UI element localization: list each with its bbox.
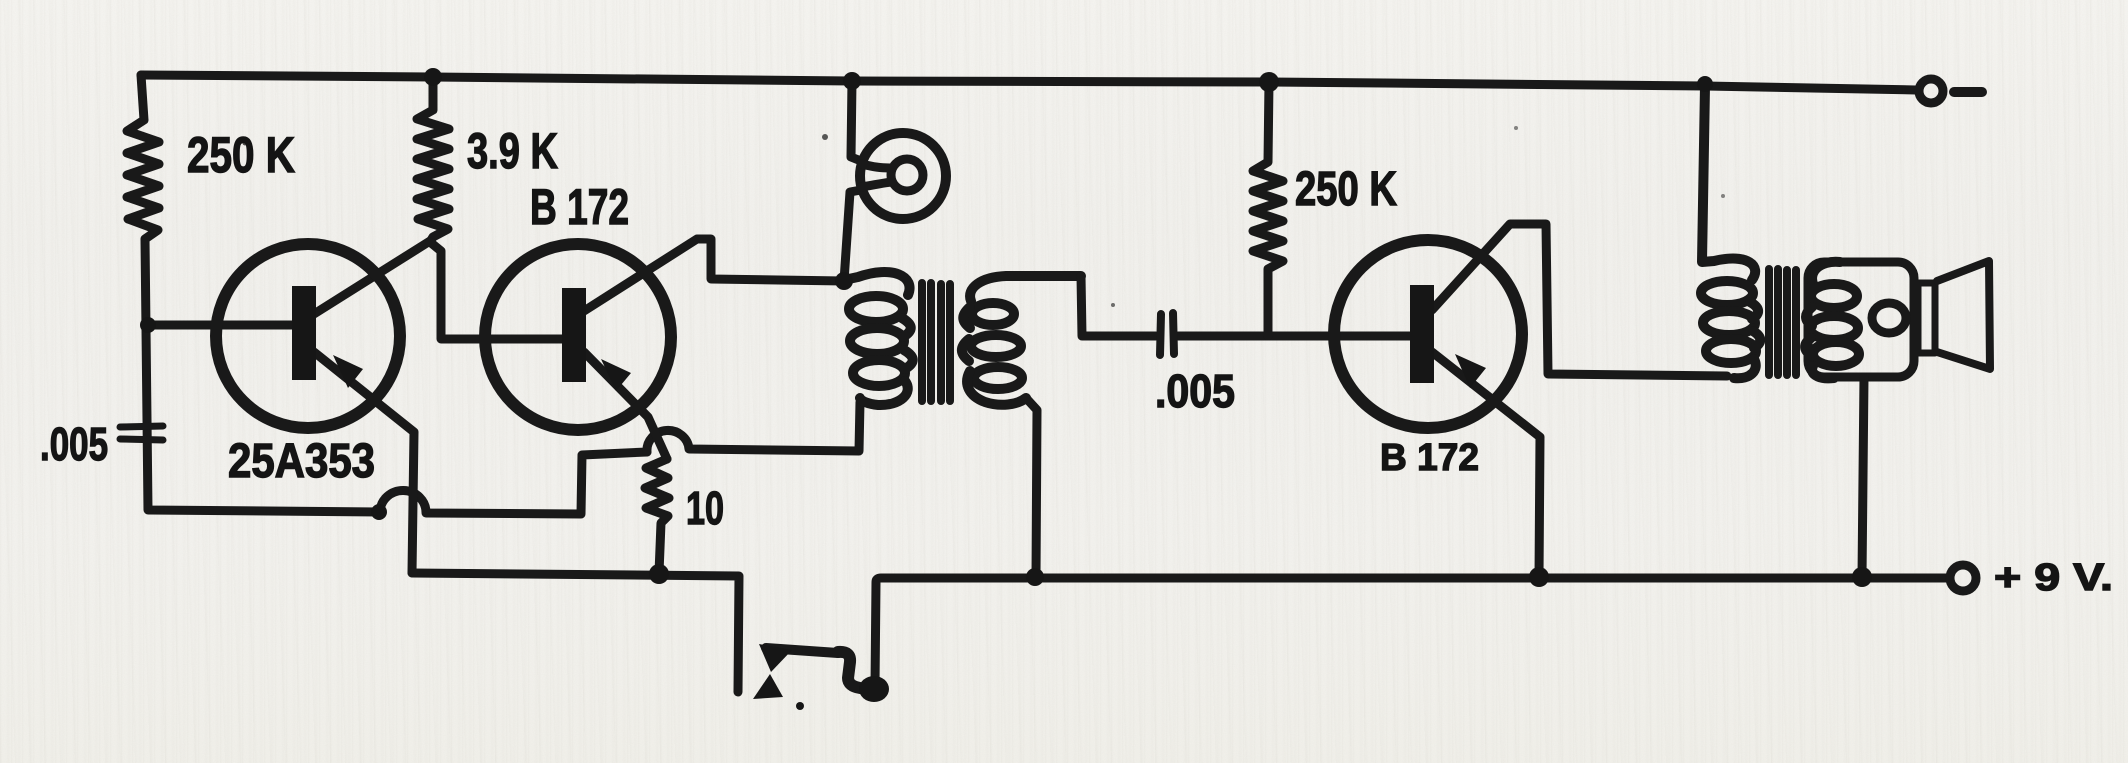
svg-text:.005: .005 (1155, 365, 1235, 417)
svg-text:.005: .005 (40, 418, 108, 470)
svg-text:10: 10 (686, 482, 724, 534)
svg-text:B 172: B 172 (530, 179, 629, 235)
svg-text:+ 9 V.: + 9 V. (1994, 557, 2113, 599)
svg-text:25A353: 25A353 (228, 435, 375, 488)
svg-text:3.9 K: 3.9 K (467, 123, 558, 179)
svg-text:250 K: 250 K (187, 127, 295, 183)
svg-text:250 K: 250 K (1295, 163, 1397, 216)
svg-text:B 172: B 172 (1380, 437, 1479, 479)
